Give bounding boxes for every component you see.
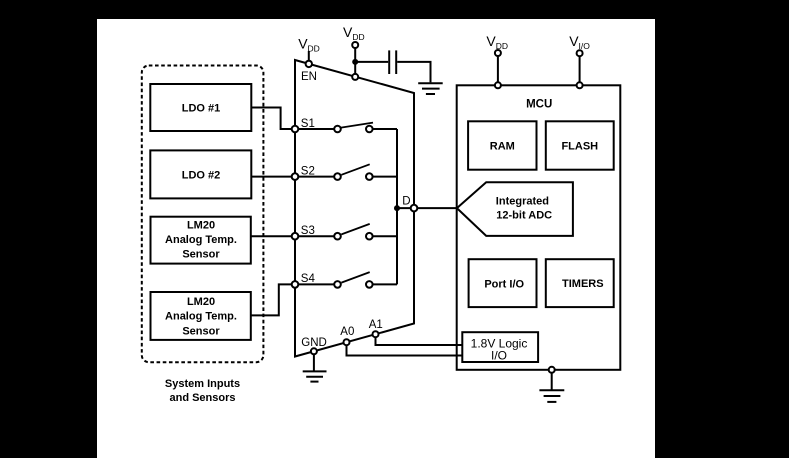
pin D: [411, 205, 418, 212]
svg-text:D: D: [402, 196, 410, 208]
TIMERS block: [546, 259, 614, 307]
wire A0 to logic box: [347, 345, 463, 355]
wire SW4 to bus: [373, 283, 397, 285]
svg-text:S3: S3: [301, 225, 315, 237]
LM20 sensor 1 block: [151, 217, 251, 264]
svg-text:12-bit ADC: 12-bit ADC: [496, 210, 552, 222]
ground (capacitor): [418, 83, 443, 94]
svg-text:MCU: MCU: [526, 99, 552, 111]
pin A1: [373, 331, 379, 337]
wire S4 to switch: [297, 283, 334, 285]
wire LDO1 to S1: [251, 108, 293, 130]
svg-text:Analog Temp.: Analog Temp.: [165, 311, 237, 323]
supply VIO: [569, 33, 590, 82]
wire LM20a to S3: [251, 235, 293, 237]
wire LDO2 to S2: [251, 176, 293, 178]
supply VDD1 (EN): [298, 36, 320, 63]
svg-text:and Sensors: and Sensors: [169, 392, 235, 404]
switch SW2 contacts: [334, 173, 341, 180]
svg-text:FLASH: FLASH: [561, 141, 598, 153]
ground (MCU): [539, 390, 564, 402]
svg-text:EN: EN: [301, 71, 317, 83]
wire S2 to switch: [297, 176, 334, 178]
wire dot to capacitor: [355, 61, 388, 63]
FLASH block: [546, 121, 614, 169]
RAM block: [468, 121, 536, 169]
ground (mux): [303, 371, 327, 381]
junction dot: [352, 59, 358, 65]
svg-text:S4: S4: [301, 273, 316, 285]
svg-text:TIMERS: TIMERS: [562, 278, 604, 290]
bus wire (switch outputs): [396, 129, 398, 284]
system inputs group (dashed): [142, 66, 264, 363]
wire VIO to MCU: [579, 56, 581, 82]
pin VDD on MCU edge: [495, 82, 501, 88]
MCU block: [457, 85, 621, 370]
switch SW1 arm: [341, 123, 373, 128]
pin S4: [292, 281, 299, 288]
wire S3 to switch: [297, 235, 334, 237]
svg-text:S1: S1: [301, 118, 315, 130]
svg-text:Integrated: Integrated: [496, 195, 549, 207]
switch SW1 contacts: [334, 126, 341, 133]
Port I/O block: [469, 259, 537, 307]
switch SW4 arm: [341, 272, 369, 283]
capacitor C1: [389, 50, 396, 74]
caption System Inputs and Sensors: [165, 378, 240, 404]
svg-text:A1: A1: [369, 319, 383, 331]
wire SW3 to bus: [373, 235, 397, 237]
wire SW2 to bus: [373, 176, 397, 178]
svg-text:Sensor: Sensor: [182, 249, 220, 261]
pin S2: [292, 173, 299, 180]
svg-text:GND: GND: [301, 337, 327, 349]
svg-text:RAM: RAM: [490, 141, 515, 153]
wire LM20b to S4: [251, 284, 293, 315]
switch SW2 arm: [341, 164, 369, 175]
pin VDD on mux edge: [352, 74, 358, 80]
svg-text:I/O: I/O: [491, 349, 507, 363]
switch SW3 arm: [341, 224, 369, 235]
svg-text:LM20: LM20: [187, 296, 215, 308]
LM20 sensor 2 block: [151, 292, 251, 340]
svg-text:Port I/O: Port I/O: [484, 279, 524, 291]
junction dot D: [394, 205, 400, 211]
supply VDD3 (MCU): [486, 33, 508, 82]
switch SW4 contacts: [334, 281, 341, 288]
LDO #2 block: [150, 150, 251, 198]
wire GND to ground: [313, 354, 315, 371]
LDO #1 block: [150, 84, 251, 131]
pin GND: [311, 348, 317, 354]
svg-text:System Inputs: System Inputs: [165, 378, 240, 390]
analog mux U1: [295, 60, 414, 357]
supply VDD2 (top): [343, 24, 365, 74]
svg-text:A0: A0: [340, 326, 354, 338]
wire MCU to ground: [551, 373, 553, 391]
svg-text:Analog Temp.: Analog Temp.: [165, 234, 237, 246]
wire SW1 to bus: [373, 128, 397, 130]
pin S1: [292, 126, 299, 133]
wire VDD2 down: [354, 48, 356, 74]
wire VDD3 to MCU: [497, 56, 499, 82]
svg-text:S2: S2: [301, 166, 315, 178]
switch SW3 contacts: [334, 233, 341, 240]
pin EN: [306, 61, 312, 67]
svg-text:LM20: LM20: [187, 219, 215, 231]
pin VIO on MCU edge: [577, 82, 583, 88]
wire A1 to logic box: [376, 337, 463, 345]
wire VDD1 to EN: [308, 51, 310, 62]
svg-text:LDO #2: LDO #2: [182, 170, 221, 182]
svg-text:Sensor: Sensor: [182, 326, 220, 338]
pin S3: [292, 233, 299, 240]
wire bus to ADC: [397, 207, 457, 209]
pin A0: [344, 339, 350, 345]
1.8V logic I/O block: [462, 332, 538, 362]
wire capacitor to ground: [397, 62, 430, 83]
wire S1 to switch: [297, 128, 334, 130]
ADC block: [457, 182, 573, 236]
pin GND on MCU bottom: [549, 367, 555, 373]
svg-text:LDO #1: LDO #1: [182, 103, 221, 115]
